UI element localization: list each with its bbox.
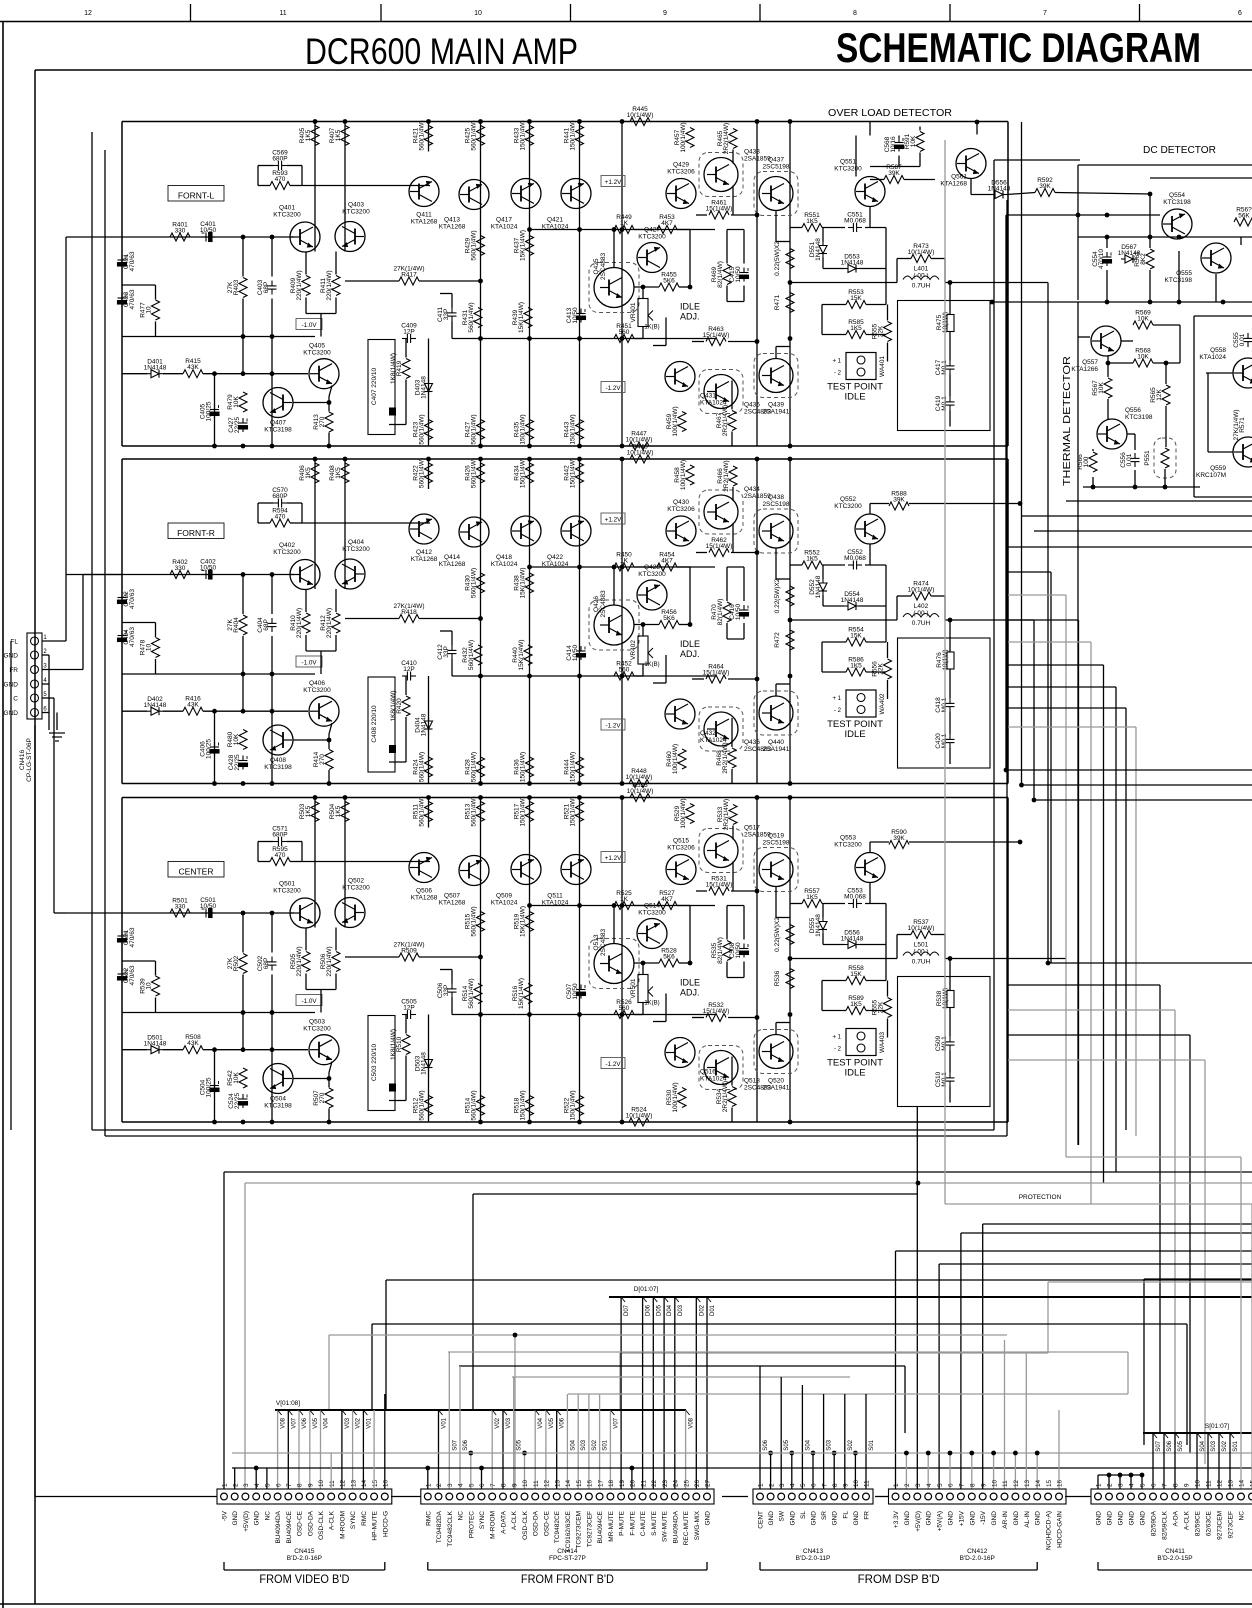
capacitor C509: [935, 1035, 955, 1051]
svg-text:2: 2: [904, 1483, 911, 1487]
transistor Q401: [273, 205, 320, 253]
resistor R557: [802, 888, 822, 908]
svg-text:20: 20: [630, 1479, 637, 1487]
svg-text:R510: R510: [396, 1036, 403, 1052]
svg-text:9: 9: [1184, 1483, 1191, 1487]
transistor Q511: [542, 855, 591, 907]
svg-text:10: 10: [146, 306, 153, 314]
svg-text:10: 10: [1195, 1479, 1202, 1487]
svg-text:Q440: Q440: [768, 739, 784, 746]
wire CENTER tail: [306, 974, 336, 1013]
junction FORNT-R lower-left: [212, 709, 331, 786]
wire V/S drops to CN414: [425, 1352, 694, 1489]
resistor R527: [657, 890, 677, 910]
label box -1.0V FORNT-R: [296, 656, 322, 667]
capacitor C569: [272, 150, 288, 171]
svg-text:39K: 39K: [893, 835, 905, 842]
capacitor C424: [118, 631, 127, 645]
resistor R434: [514, 458, 534, 488]
wire CENTER columns: [306, 798, 790, 1123]
svg-text:Q417: Q417: [496, 217, 512, 224]
svg-text:+ 1: + 1: [832, 1035, 841, 1041]
svg-text:1K5: 1K5: [850, 663, 862, 670]
svg-text:B'D-2.0-15P: B'D-2.0-15P: [1157, 1555, 1192, 1562]
box output network CENTER: [898, 977, 991, 1107]
svg-text:S01: S01: [603, 1439, 609, 1450]
net gnd collector: [232, 1452, 1252, 1454]
resistor R411: [320, 270, 340, 300]
svg-text:6: 6: [811, 1483, 818, 1487]
svg-text:470/63: 470/63: [129, 289, 136, 309]
resistor R513: [465, 796, 485, 826]
junction FORNT-L vas: [612, 227, 693, 289]
svg-text:1K: 1K: [620, 558, 629, 565]
svg-text:Q429: Q429: [673, 162, 689, 169]
svg-text:Q405: Q405: [309, 343, 325, 350]
resistor R416: [183, 696, 203, 716]
svg-text:9: 9: [980, 1483, 987, 1487]
transistor Q429: [666, 162, 696, 209]
svg-text:7: 7: [490, 1483, 497, 1487]
svg-text:10: 10: [853, 1479, 860, 1487]
svg-text:10K: 10K: [1137, 316, 1149, 323]
resistor R462: [706, 537, 733, 557]
svg-text:10(1/4W): 10(1/4W): [627, 788, 654, 795]
wire right bus verticals: [1006, 194, 1078, 1145]
svg-text:2SC4883: 2SC4883: [600, 590, 607, 617]
resistor R464: [703, 664, 730, 684]
svg-text:-5V: -5V: [222, 1510, 229, 1521]
wire h 1335: [329, 1335, 1007, 1489]
svg-text:15K(1/4W): 15K(1/4W): [520, 230, 527, 261]
svg-text:62/63CE: 62/63CE: [1206, 1510, 1213, 1536]
svg-text:A-CLK: A-CLK: [511, 1510, 518, 1530]
svg-text:+3.3V: +3.3V: [893, 1510, 900, 1528]
resistor R459: [666, 406, 686, 436]
wire CN416 FR to FORNT-R input: [42, 575, 122, 670]
svg-text:470: 470: [275, 176, 286, 183]
wire FORNT-R input rc: [122, 623, 315, 675]
transistor Q414: [439, 517, 489, 568]
transistor Q432: [665, 699, 727, 744]
svg-text:HDCD-G: HDCD-G: [382, 1511, 389, 1537]
wire riser left 2: [244, 1183, 246, 1489]
svg-text:GND: GND: [991, 1511, 998, 1526]
svg-text:39K: 39K: [1039, 183, 1051, 190]
svg-text:M0.068: M0.068: [844, 894, 866, 901]
svg-text:GND: GND: [1140, 1511, 1147, 1526]
svg-text:100(1/4W): 100(1/4W): [680, 460, 687, 490]
capacitor C524: [228, 1092, 248, 1109]
capacitor C417: [935, 359, 955, 375]
svg-text:330: 330: [175, 565, 186, 572]
svg-text:10(1/4W): 10(1/4W): [626, 1113, 653, 1120]
svg-text:1K5: 1K5: [335, 129, 342, 141]
svg-text:KTC3200: KTC3200: [638, 234, 666, 241]
junction dc det: [990, 235, 1226, 305]
svg-text:GND: GND: [948, 1511, 955, 1526]
svg-text:Q556: Q556: [1125, 407, 1141, 414]
svg-text:21: 21: [640, 1479, 647, 1487]
svg-text:GND: GND: [705, 1511, 712, 1526]
svg-text:HDCD-GAIN: HDCD-GAIN: [1057, 1511, 1064, 1548]
svg-text:2: 2: [232, 1483, 239, 1487]
capacitor C407: [368, 340, 396, 435]
wire V drops to CN415: [278, 1410, 373, 1489]
svg-text:150(1/4W): 150(1/4W): [520, 414, 527, 444]
svg-text:8: 8: [501, 1483, 508, 1487]
svg-text:SYNC: SYNC: [350, 1511, 357, 1529]
svg-text:10K: 10K: [1137, 354, 1149, 361]
transistor Q439: [754, 354, 798, 416]
resistor R461: [706, 200, 733, 220]
wire h 1394: [568, 1393, 1128, 1395]
wire FORNT-R prot top: [870, 504, 1022, 515]
resistor R569: [1133, 310, 1153, 330]
svg-text:Q554: Q554: [1169, 192, 1185, 199]
wire protection bus 2: [245, 1182, 1252, 1184]
svg-text:0.7UH: 0.7UH: [912, 959, 931, 966]
junction FORNT-R mid: [478, 565, 792, 679]
junction FORNT-R out node: [788, 618, 953, 623]
resistor R519: [514, 906, 534, 937]
wire stair 2: [961, 1233, 1252, 1489]
svg-text:V07: V07: [291, 1417, 297, 1428]
svg-text:5: 5: [265, 1483, 272, 1487]
svg-text:270: 270: [319, 416, 326, 427]
junction right bus: [1004, 768, 1051, 966]
svg-text:Q509: Q509: [496, 893, 512, 900]
bracket CN411: [1098, 1562, 1252, 1570]
capacitor C410: [401, 660, 417, 681]
svg-text:2SA1941: 2SA1941: [763, 746, 790, 753]
svg-text:Q412: Q412: [416, 549, 432, 556]
svg-text:470/63: 470/63: [129, 251, 136, 271]
svg-text:SL: SL: [800, 1511, 807, 1519]
capacitor C421: [118, 255, 127, 269]
label box -1.0V CENTER: [296, 995, 322, 1006]
resistor R468: [716, 742, 736, 773]
label box -1.2V FORNT-L: [601, 382, 625, 393]
svg-text:1N4148: 1N4148: [815, 914, 822, 937]
svg-text:0.22(5W)X2: 0.22(5W)X2: [774, 241, 781, 276]
svg-text:560(1/4W): 560(1/4W): [471, 752, 478, 782]
transistor Q404: [335, 539, 370, 589]
transistor Q501: [273, 881, 320, 929]
svg-text:1N4148: 1N4148: [144, 702, 167, 709]
svg-text:Q426: Q426: [593, 596, 600, 612]
svg-text:1N4148: 1N4148: [144, 1041, 167, 1048]
svg-text:FPC-ST-27P: FPC-ST-27P: [549, 1555, 586, 1562]
svg-text:7: 7: [959, 1483, 966, 1487]
svg-text:2R2(1/4W): 2R2(1/4W): [722, 1081, 729, 1112]
svg-text:10/50: 10/50: [200, 227, 217, 234]
svg-text:S04: S04: [805, 1439, 811, 1450]
svg-text:1K5: 1K5: [335, 467, 342, 479]
svg-text:22/25: 22/25: [234, 1092, 241, 1109]
svg-text:0.7UH: 0.7UH: [912, 283, 931, 290]
svg-text:TC9482CE: TC9482CE: [554, 1510, 561, 1543]
svg-text:SYNC: SYNC: [479, 1511, 486, 1529]
wire h 1377: [512, 1376, 850, 1378]
svg-text:OSD-CE: OSD-CE: [543, 1510, 550, 1536]
svg-text:1K: 1K: [620, 896, 629, 903]
resistor R403: [227, 278, 247, 298]
svg-text:KTA1268: KTA1268: [439, 900, 466, 907]
svg-text:7: 7: [286, 1483, 293, 1487]
svg-text:100/25: 100/25: [206, 739, 213, 759]
transistor Q558: [1199, 347, 1252, 388]
svg-text:V06: V06: [302, 1417, 308, 1428]
svg-text:6: 6: [948, 1483, 955, 1487]
wire CENTER c411: [440, 970, 452, 1015]
wire FORNT-R output to bus: [950, 619, 1034, 621]
svg-text:-1.0V: -1.0V: [301, 659, 317, 666]
transistor Q551: [834, 159, 885, 207]
transistor Q557: [1071, 326, 1121, 373]
svg-text:9273CEF: 9273CEF: [1228, 1511, 1235, 1538]
svg-text:DC DETECTOR: DC DETECTOR: [1143, 144, 1216, 156]
resistor R420: [390, 690, 410, 721]
svg-text:Q506: Q506: [416, 888, 432, 895]
svg-text:GND: GND: [1035, 1511, 1042, 1526]
svg-text:14: 14: [565, 1479, 572, 1487]
potentiometer VR401: [630, 299, 660, 331]
transistor Q555: [1165, 243, 1231, 284]
svg-text:15K: 15K: [850, 971, 862, 978]
svg-text:KTA1268: KTA1268: [411, 219, 438, 226]
capacitor C568: [884, 136, 904, 153]
svg-text:KTC3200: KTC3200: [273, 549, 301, 556]
svg-text:ADJ.: ADJ.: [680, 312, 700, 322]
wire FORNT-L prot: [790, 207, 888, 362]
svg-text:10/50: 10/50: [200, 903, 217, 910]
svg-text:Q408: Q408: [270, 757, 286, 764]
resistor R591: [904, 132, 924, 152]
resistor R515: [465, 906, 485, 936]
junction CENTER mid: [478, 903, 792, 1017]
svg-text:43K: 43K: [187, 364, 199, 371]
svg-text:L401: L401: [914, 266, 929, 273]
svg-text:5: 5: [800, 1483, 807, 1487]
resistor R412: [320, 608, 340, 638]
svg-text:6: 6: [275, 1483, 282, 1487]
junction CENTER out node: [788, 956, 953, 961]
svg-text:GND: GND: [789, 1511, 796, 1526]
diode D552: [809, 575, 827, 598]
capacitor C420: [935, 733, 955, 749]
resistor R473: [908, 243, 935, 263]
wire FORNT-L mid bus: [345, 230, 715, 339]
potentiometer VR501: [630, 975, 660, 1007]
capacitor C427: [228, 416, 248, 433]
svg-text:18: 18: [608, 1479, 615, 1487]
svg-text:HP-MUTE: HP-MUTE: [372, 1510, 379, 1540]
svg-text:150(1/4W): 150(1/4W): [520, 796, 527, 826]
svg-text:KTA1268: KTA1268: [411, 556, 438, 563]
resistor R466: [717, 460, 737, 491]
svg-text:1K(B): 1K(B): [644, 1001, 659, 1007]
label box +1.2V FORNT-L: [601, 176, 625, 187]
transistor Q435: [699, 370, 771, 416]
svg-text:GND: GND: [1013, 1511, 1020, 1526]
inductor L401: [903, 266, 939, 290]
svg-text:V01: V01: [366, 1417, 372, 1428]
junction FORNT-L col757: [755, 213, 760, 344]
svg-text:10K: 10K: [233, 733, 240, 745]
test point WA403: [827, 1029, 886, 1079]
svg-text:560(1/4W): 560(1/4W): [468, 302, 475, 332]
wire thermal right box: [1194, 316, 1252, 497]
svg-text:15K(1/4W): 15K(1/4W): [518, 302, 525, 333]
svg-text:KTC3200: KTC3200: [638, 910, 666, 917]
resistor R587: [884, 164, 904, 184]
junction dots FORNT-L top bus: [313, 119, 793, 124]
diode D555: [809, 914, 827, 937]
wire drops to CN413: [760, 1366, 875, 1489]
label box -1.2V CENTER: [601, 1058, 625, 1069]
svg-text:100/25: 100/25: [206, 1077, 213, 1097]
capacitor C423: [118, 293, 127, 307]
svg-text:BU4094CE: BU4094CE: [597, 1510, 604, 1543]
wire FORNT-R columns: [306, 459, 790, 784]
svg-text:150(1/4W): 150(1/4W): [520, 120, 527, 150]
svg-text:560(1/4W): 560(1/4W): [471, 230, 478, 260]
svg-text:KTC3200: KTC3200: [834, 166, 862, 173]
transistor Q518: [699, 1046, 771, 1092]
transistor Q440: [754, 691, 798, 753]
svg-text:10: 10: [318, 1479, 325, 1487]
resistor R521: [564, 796, 584, 826]
svg-text:S04: S04: [570, 1439, 576, 1450]
svg-text:FR: FR: [864, 1511, 871, 1520]
connector CN415: [217, 1479, 392, 1562]
wire outer loop A: [92, 132, 1080, 1130]
capacitor C428: [228, 754, 248, 771]
svg-text:GND: GND: [832, 1511, 839, 1526]
svg-text:FORNT-R: FORNT-R: [177, 528, 215, 538]
svg-text:100/25: 100/25: [206, 401, 213, 421]
svg-text:1K5: 1K5: [305, 805, 312, 817]
svg-text:15: 15: [372, 1479, 379, 1487]
resistor R526: [614, 999, 634, 1019]
svg-text:S01: S01: [869, 1439, 875, 1450]
svg-text:2SC5198: 2SC5198: [762, 164, 789, 171]
svg-text:GND: GND: [926, 1511, 933, 1526]
junction FORNT-R vas: [612, 565, 693, 627]
resistor R431: [462, 302, 482, 332]
svg-text:12K: 12K: [1156, 389, 1163, 401]
resistor R551: [802, 212, 822, 232]
resistor R586: [846, 657, 866, 677]
svg-text:Q404: Q404: [348, 539, 364, 546]
capacitor C503: [368, 1016, 396, 1111]
svg-text:R417: R417: [401, 272, 417, 279]
svg-text:P551: P551: [1144, 450, 1151, 466]
resistor R529: [674, 798, 694, 828]
resistor R523: [627, 782, 654, 802]
wire FORNT-L fb loop: [258, 166, 430, 186]
resistor R518: [514, 1090, 534, 1120]
svg-text:39K: 39K: [893, 497, 905, 504]
svg-text:680P: 680P: [272, 156, 287, 163]
resistor R554: [846, 627, 866, 647]
resistor R552: [802, 550, 822, 570]
svg-text:6: 6: [479, 1483, 486, 1487]
capacitor C555: [1233, 332, 1252, 348]
svg-text:4K7: 4K7: [661, 558, 673, 565]
svg-text:Q437: Q437: [768, 157, 784, 164]
svg-text:39K: 39K: [888, 170, 900, 177]
svg-text:Q430: Q430: [673, 499, 689, 506]
resistor R566: [1077, 452, 1097, 472]
transistor Q408: [263, 725, 293, 771]
resistor R471: [774, 293, 794, 313]
transistor Q553: [834, 835, 885, 883]
svg-text:V01: V01: [442, 1417, 448, 1428]
svg-text:PROTECTION: PROTECTION: [1019, 1194, 1062, 1201]
resistor R440: [512, 639, 532, 670]
resistor R410: [290, 608, 310, 638]
diode D401: [144, 359, 167, 378]
svg-text:GND: GND: [768, 1511, 775, 1526]
label FROM VIDEO B'D: [224, 1562, 385, 1586]
wire CENTER right cascade: [1008, 985, 1205, 1464]
svg-text:17: 17: [597, 1479, 604, 1487]
capacitor C570: [272, 487, 288, 508]
svg-text:R419: R419: [396, 360, 403, 376]
capacitor C404: [257, 617, 277, 633]
wire stair 1: [983, 1224, 1252, 1489]
svg-text:S03: S03: [581, 1439, 587, 1450]
capacitor C556: [1120, 452, 1140, 468]
svg-text:M0.068: M0.068: [844, 555, 866, 562]
resistor R432: [462, 640, 482, 670]
capacitor C551: [844, 212, 866, 233]
svg-text:220(1/4W): 220(1/4W): [326, 946, 333, 976]
svg-text:10/16: 10/16: [890, 136, 897, 153]
svg-text:FROM DSP B'D: FROM DSP B'D: [858, 1572, 940, 1586]
resistor R453: [657, 214, 677, 234]
svg-text:B'D-2.0-16P: B'D-2.0-16P: [960, 1555, 995, 1562]
resistor R401: [170, 222, 190, 242]
svg-text:S02: S02: [1222, 1440, 1228, 1451]
svg-text:43K: 43K: [187, 1040, 199, 1047]
thermistor P551: [1144, 438, 1176, 478]
resistor R588: [889, 491, 909, 511]
svg-text:1: 1: [893, 1483, 900, 1487]
svg-text:2R2(1/4W): 2R2(1/4W): [722, 405, 729, 436]
svg-text:+5V(D): +5V(D): [243, 1511, 250, 1532]
resistor R437: [514, 230, 534, 261]
resistor R475: [936, 312, 954, 333]
transistor Q431: [665, 362, 727, 407]
resistor R516: [512, 978, 532, 1009]
svg-text:10(1/4W): 10(1/4W): [627, 112, 654, 119]
resistor R456: [659, 609, 679, 629]
svg-text:Q503: Q503: [309, 1019, 325, 1026]
svg-text:IDLE: IDLE: [844, 392, 865, 403]
diode D553: [841, 254, 864, 273]
svg-text:C503 220/10: C503 220/10: [371, 1044, 378, 1082]
svg-text:2SC5198: 2SC5198: [762, 840, 789, 847]
svg-text:22: 22: [651, 1479, 658, 1487]
svg-text:470/63: 470/63: [129, 965, 136, 985]
svg-text:Q519: Q519: [768, 833, 784, 840]
svg-text:KTC3200: KTC3200: [273, 888, 301, 895]
wire FORNT-L r403 col: [243, 237, 272, 446]
diode D402: [144, 696, 167, 715]
